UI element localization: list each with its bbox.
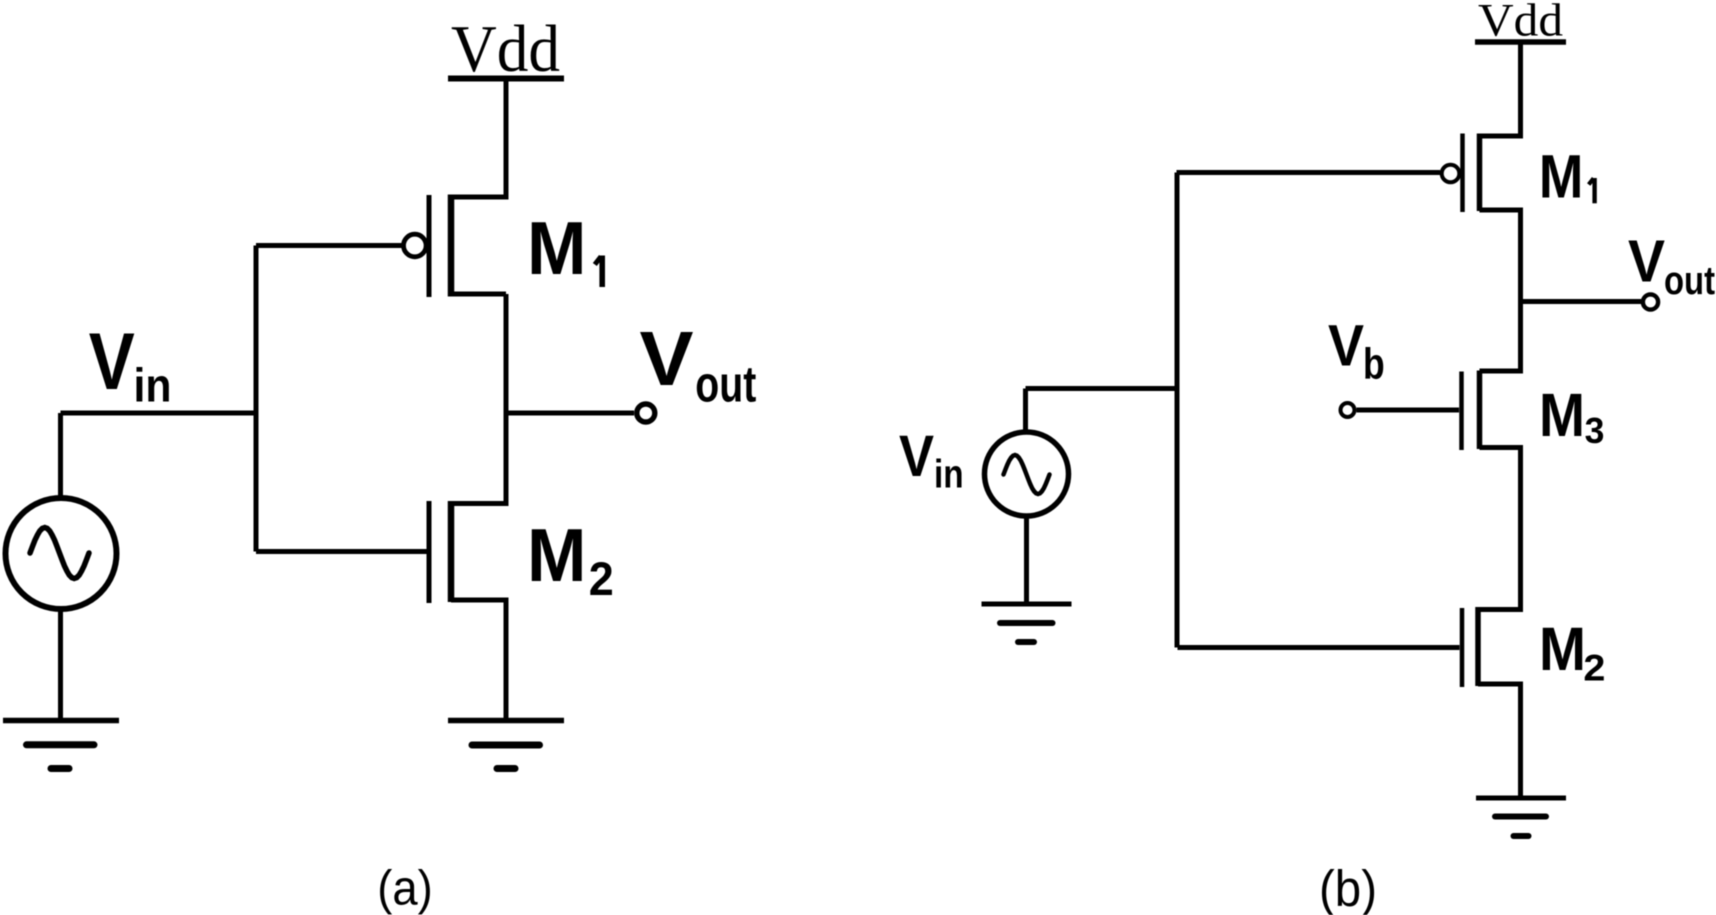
- svg-text:M: M: [527, 513, 587, 597]
- svg-text:in: in: [134, 359, 172, 412]
- svg-text:(b): (b): [1319, 860, 1377, 915]
- svg-text:2: 2: [1583, 647, 1605, 689]
- svg-text:M: M: [1539, 143, 1584, 211]
- svg-text:M: M: [527, 206, 587, 290]
- svg-text:b: b: [1363, 341, 1385, 389]
- svg-text:out: out: [695, 356, 756, 413]
- svg-text:V: V: [89, 317, 135, 407]
- svg-text:Vdd: Vdd: [451, 12, 560, 86]
- svg-text:M: M: [1539, 381, 1585, 450]
- svg-text:V: V: [1328, 314, 1364, 379]
- svg-text:V: V: [899, 424, 934, 489]
- svg-text:V: V: [640, 316, 694, 402]
- svg-text:V: V: [1628, 229, 1665, 295]
- svg-text:in: in: [934, 453, 964, 497]
- svg-text:2: 2: [589, 552, 614, 605]
- svg-text:Vdd: Vdd: [1478, 0, 1563, 47]
- svg-text:3: 3: [1585, 410, 1605, 451]
- svg-text:(a): (a): [377, 862, 433, 915]
- svg-text:M: M: [1539, 615, 1586, 683]
- svg-text:out: out: [1664, 259, 1715, 303]
